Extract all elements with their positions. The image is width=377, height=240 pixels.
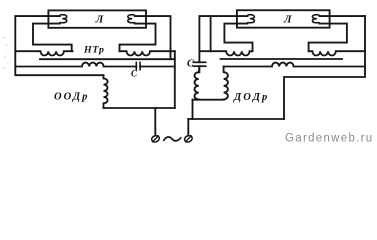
svg-text:Л: Л <box>283 14 292 26</box>
svg-text:НТр: НТр <box>83 44 105 55</box>
svg-text:ДОДр: ДОДр <box>233 92 269 103</box>
svg-text:ООДр: ООДр <box>54 91 89 102</box>
svg-text:Gardenweb.ru: Gardenweb.ru <box>285 133 373 145</box>
svg-text:С: С <box>187 59 194 70</box>
svg-text:Л: Л <box>95 13 104 25</box>
svg-text:С: С <box>131 68 138 78</box>
